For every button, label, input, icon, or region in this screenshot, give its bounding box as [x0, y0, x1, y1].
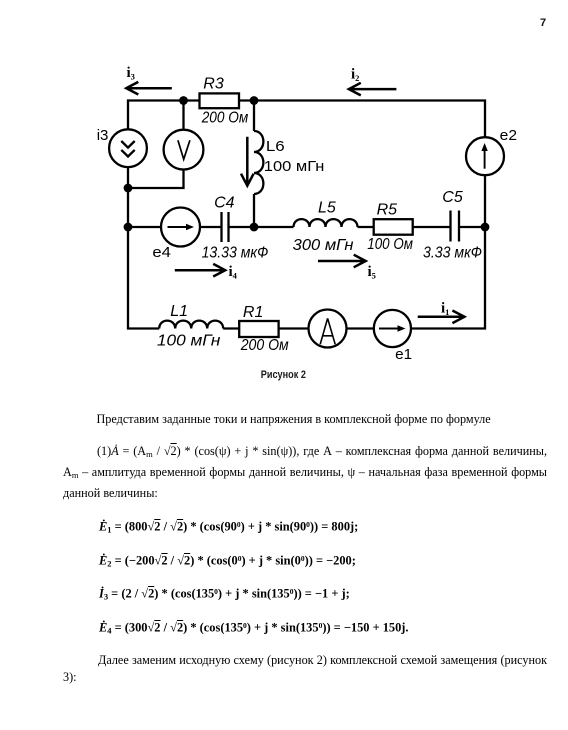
- junction node top (L6 branch): [250, 96, 259, 105]
- paragraph 3: [63, 650, 547, 671]
- equation E4: [99, 616, 409, 641]
- svg-text:L6: L6: [266, 138, 285, 155]
- page number: [540, 17, 560, 29]
- svg-text:200 Ом: 200 Ом: [201, 110, 248, 127]
- circuit schematic figure: [0, 0, 568, 400]
- inductor L1: [159, 321, 223, 329]
- current arrow i2: [349, 83, 397, 96]
- paragraph 1: [63, 409, 547, 430]
- wire C4 to L5: [229, 226, 294, 228]
- inductor L5: [294, 219, 358, 227]
- svg-text:100 мГн: 100 мГн: [264, 158, 325, 175]
- capacitor C5: [449, 211, 451, 242]
- svg-text:e2: e2: [500, 127, 517, 144]
- svg-text:300 мГн: 300 мГн: [293, 237, 354, 254]
- svg-text:i2: i2: [351, 67, 359, 84]
- source e4: [161, 208, 200, 247]
- wire L6 branch upper: [253, 101, 255, 132]
- arrowhead of source e2: [481, 143, 487, 151]
- resistor R1: [239, 321, 278, 337]
- current arrow i1: [418, 311, 465, 324]
- svg-text:100 мГн: 100 мГн: [157, 333, 221, 350]
- svg-text:R5: R5: [377, 202, 398, 219]
- resistor R3: [200, 93, 240, 108]
- inductor L6: [254, 131, 263, 194]
- svg-text:13.33 мкФ: 13.33 мкФ: [202, 244, 269, 261]
- current arrow along L6: [241, 137, 254, 186]
- current arrow i4: [175, 264, 225, 277]
- wire top left corner to R3: [128, 101, 200, 130]
- svg-text:200 Ом: 200 Ом: [240, 337, 289, 354]
- junction node left (V branch bottom): [124, 184, 133, 193]
- svg-text:R1: R1: [243, 304, 263, 321]
- wire R3 to top right corner: [239, 101, 485, 138]
- svg-text:L1: L1: [170, 303, 188, 320]
- wire R5 to C5: [413, 226, 451, 228]
- voltmeter V1: [164, 130, 204, 170]
- svg-text:i5: i5: [368, 264, 376, 281]
- svg-text:e4: e4: [152, 244, 171, 261]
- junction node top (V branch): [179, 96, 188, 105]
- arrowhead of source e1: [398, 325, 406, 331]
- svg-text:R3: R3: [203, 76, 224, 93]
- wire R1 to ammeter: [279, 327, 309, 329]
- wire V-branch vertical lower and horizontal to node: [128, 170, 184, 189]
- svg-text:100 Ом: 100 Ом: [367, 236, 413, 253]
- svg-text:Рисунок 2: Рисунок 2: [261, 369, 306, 381]
- current arrow i5: [318, 255, 366, 268]
- svg-text:C5: C5: [442, 189, 463, 206]
- svg-text:e1: e1: [395, 346, 412, 363]
- ammeter A1: [309, 310, 347, 348]
- svg-text:L5: L5: [318, 200, 336, 217]
- svg-text:i4: i4: [229, 264, 238, 281]
- source e1: [374, 310, 411, 347]
- svg-text:C4: C4: [214, 195, 235, 212]
- capacitor C4: [220, 212, 222, 242]
- source e2: [466, 137, 504, 175]
- wire L6 branch lower: [253, 194, 255, 227]
- wire ammeter to e1: [347, 327, 374, 329]
- wire left vertical lower (i3 source to bottom row): [128, 167, 159, 328]
- junction node middle (L6 bottom): [250, 223, 259, 232]
- wire e4 to C4: [200, 226, 222, 228]
- wire middle row: node to e4: [128, 226, 161, 228]
- equation E3: [99, 582, 350, 607]
- equation E1: [99, 515, 358, 540]
- svg-text:i1: i1: [441, 301, 449, 318]
- wire V-branch vertical upper: [182, 101, 184, 130]
- equation E2: [99, 549, 356, 574]
- wire C5 to right node: [459, 226, 485, 228]
- current arrow i3: [126, 82, 172, 95]
- svg-text:i3: i3: [127, 65, 135, 82]
- junction node left middle row: [124, 223, 133, 232]
- svg-text:i3: i3: [97, 127, 109, 144]
- junction node right middle row: [481, 223, 490, 232]
- paragraph 2: [63, 441, 547, 465]
- arrowhead of source e4: [186, 224, 194, 230]
- wire L5 to R5: [358, 226, 374, 228]
- svg-text:3.33 мкФ: 3.33 мкФ: [423, 245, 482, 262]
- resistor R5: [374, 219, 413, 235]
- wire right vertical lower (e2 to bottom row): [411, 175, 485, 328]
- current source i3: [109, 129, 147, 167]
- wire L1 to R1: [223, 327, 239, 329]
